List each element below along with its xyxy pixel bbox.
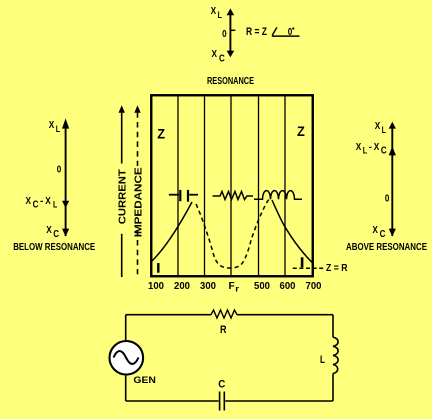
svg-text:0: 0 (222, 29, 227, 40)
svg-text:X: X (374, 142, 380, 153)
svg-text:CURRENT: CURRENT (117, 169, 128, 225)
svg-text:0: 0 (385, 194, 390, 205)
svg-text:C: C (380, 229, 386, 240)
svg-text:200: 200 (174, 281, 190, 292)
svg-text:X: X (49, 120, 55, 131)
svg-text:ABOVE RESONANCE: ABOVE RESONANCE (346, 242, 427, 253)
svg-text:Z = R: Z = R (326, 262, 348, 274)
svg-text:X: X (46, 225, 52, 236)
svg-text:-: - (369, 142, 372, 153)
svg-text:GEN: GEN (133, 375, 156, 386)
svg-text:X: X (45, 196, 51, 207)
svg-text:Z: Z (297, 124, 305, 139)
svg-text:BELOW RESONANCE: BELOW RESONANCE (13, 242, 95, 253)
svg-text:X: X (212, 49, 218, 60)
svg-text:100: 100 (148, 281, 164, 292)
svg-text:C: C (33, 199, 39, 210)
svg-text:L: L (56, 124, 60, 135)
svg-text:X: X (26, 196, 32, 207)
svg-text:X: X (211, 6, 217, 17)
svg-text:X: X (372, 225, 378, 236)
svg-text:C: C (219, 53, 225, 64)
svg-text:0: 0 (57, 164, 62, 175)
svg-text:RESONANCE: RESONANCE (207, 76, 254, 87)
svg-text:IMPEDANCE: IMPEDANCE (133, 167, 144, 237)
svg-text:C: C (381, 145, 387, 156)
svg-text:X: X (375, 121, 381, 132)
svg-text:700: 700 (306, 281, 322, 292)
svg-text:600: 600 (280, 281, 296, 292)
svg-text:C: C (53, 229, 59, 240)
svg-text:L: L (218, 10, 222, 21)
svg-text:-: - (40, 196, 43, 207)
svg-text:L: L (382, 125, 386, 136)
svg-text:500: 500 (254, 281, 270, 292)
svg-text:300: 300 (200, 281, 216, 292)
svg-text:Z: Z (157, 126, 165, 141)
svg-text:L: L (363, 145, 367, 156)
svg-text:X: X (356, 142, 362, 153)
svg-text:L: L (320, 354, 325, 366)
svg-text:r: r (235, 285, 239, 294)
svg-text:F: F (229, 281, 235, 292)
svg-text:C: C (218, 379, 225, 391)
svg-text:R: R (220, 324, 227, 336)
svg-text:L: L (53, 199, 57, 210)
svg-text:R = Z: R = Z (246, 26, 267, 38)
